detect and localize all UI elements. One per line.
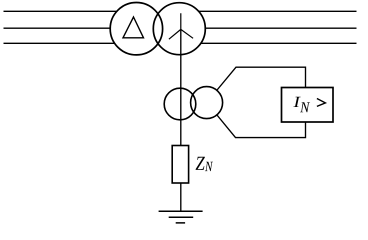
resistor ZN (neutral earthing impedance) (172, 146, 188, 184)
transformer T1 primary winding (delta side) circle (110, 3, 162, 55)
relay U1 box (282, 88, 334, 123)
wire: CT secondary lower lead to relay (210, 107, 306, 138)
wye symbol inside T1 secondary (169, 13, 193, 39)
wire: right bus phase line L3 (179, 42, 356, 44)
label ZN: letter Z (196, 157, 205, 170)
wire: CT secondary upper lead to relay (210, 67, 306, 98)
wire: left bus phase line L1 (4, 10, 138, 12)
current transformer CT secondary circle (191, 87, 223, 119)
delta symbol inside T1 primary (123, 17, 144, 38)
wire: left bus phase line L2 (4, 27, 138, 29)
transformer T1 secondary winding (wye side) circle (153, 3, 205, 55)
ground symbol (159, 211, 203, 223)
wire: neutral conductor from wye centre down (180, 29, 182, 164)
label IN>: letter I (293, 97, 300, 107)
label ZN: subscript N (205, 162, 213, 171)
current transformer CT circles (white masks) (164, 88, 196, 120)
wire: right bus phase line L2 (179, 27, 356, 29)
label IN>: greater-than sign (317, 99, 326, 107)
label IN>: subscript N (300, 102, 310, 112)
current transformer CT primary circle (164, 88, 196, 120)
wire: right bus phase line L1 (179, 10, 356, 12)
wire: neutral below resistor to ground (180, 183, 182, 211)
transformer T1 winding circles (white masks) (110, 3, 162, 55)
wire: left bus phase line L3 (4, 42, 138, 44)
